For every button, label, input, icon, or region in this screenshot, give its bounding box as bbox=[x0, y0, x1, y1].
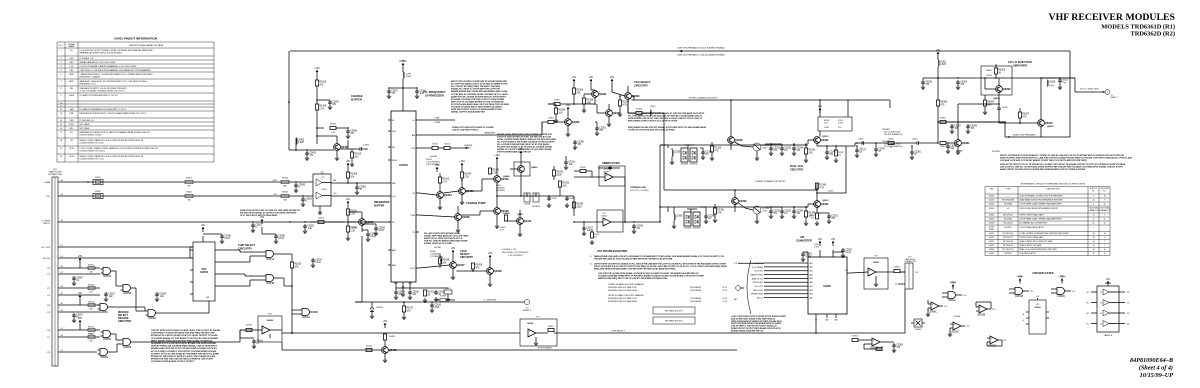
svg-text:TABLE B: TABLE B bbox=[1104, 334, 1113, 337]
svg-text:.1uF: .1uF bbox=[159, 296, 164, 298]
wire 41-CS2 bbox=[64, 257, 193, 259]
svg-text:U2606B: U2606B bbox=[123, 347, 132, 349]
svg-text:XREF: XREF bbox=[392, 160, 398, 162]
svg-text:U2600: U2600 bbox=[527, 323, 534, 325]
connector pin 46 (P3) bbox=[47, 293, 64, 297]
svg-text:R2424: R2424 bbox=[389, 336, 396, 338]
svg-text:LOWER 1/2 BAND CIRCUITRY ENABL: LOWER 1/2 BAND CIRCUITRY ENABLED: bbox=[608, 283, 645, 286]
svg-text:+5V: +5V bbox=[78, 255, 83, 258]
steering line distribution bbox=[659, 145, 668, 223]
svg-text:R2426: R2426 bbox=[366, 345, 373, 347]
svg-text:LM2904: LM2904 bbox=[1005, 253, 1012, 255]
wire synth adapt bbox=[282, 342, 737, 350]
svg-text:2.2K: 2.2K bbox=[350, 230, 355, 232]
svg-text:2.2K: 2.2K bbox=[492, 172, 497, 174]
svg-text:U2603B: U2603B bbox=[977, 315, 986, 317]
capacitor C2416 bbox=[430, 301, 442, 312]
svg-text:VOLTAGE SYNTH BOARD OUTPUT OUT: VOLTAGE SYNTH BOARD OUTPUT OUTPUT bbox=[151, 361, 195, 363]
svg-text:MC74HC00: MC74HC00 bbox=[1003, 245, 1013, 247]
svg-text:C2345: C2345 bbox=[858, 139, 863, 141]
svg-text:U/D LOCK: U/D LOCK bbox=[755, 286, 764, 288]
svg-text:FEEDBACK RF INPUT. 101.40–170.: FEEDBACK RF INPUT. 101.40–170.45MHZ (TRD… bbox=[80, 87, 127, 90]
connector pin 47 (P8) bbox=[47, 350, 64, 354]
transistor Q2360 bandshift inverter bbox=[556, 104, 580, 137]
svg-text:VDD: VDD bbox=[392, 131, 397, 133]
svg-text:C6306: C6306 bbox=[986, 75, 992, 77]
varactor CR2391 bbox=[683, 212, 692, 230]
svg-text:LOCK: LOCK bbox=[410, 268, 416, 270]
svg-text:+5V: +5V bbox=[78, 292, 83, 295]
svg-text:C6310: C6310 bbox=[1002, 107, 1008, 109]
svg-text:BANDSHIFT. HIGH SELECTS LOW FR: BANDSHIFT. HIGH SELECTS LOW FREQUENCY VC… bbox=[80, 80, 148, 83]
svg-text:171.45–195.45MHZ (TRD6362). RI: 171.45–195.45MHZ (TRD6362). RIDING ON 1.… bbox=[80, 91, 126, 93]
svg-text:R2667: R2667 bbox=[88, 265, 95, 267]
svg-text:REFERENCE DIVIDER INPUT. 2.1 M: REFERENCE DIVIDER INPUT. 2.1 MHZ SQUARE … bbox=[80, 112, 148, 115]
svg-text:LOCKED = +5V: LOCKED = +5V bbox=[502, 249, 517, 251]
resistor R2366 bbox=[548, 104, 566, 123]
svg-text:0.1uF: 0.1uF bbox=[224, 238, 230, 240]
svg-text:LOAD: LOAD bbox=[434, 117, 440, 120]
svg-text:14: 14 bbox=[1092, 245, 1094, 247]
svg-text:U2600: U2600 bbox=[873, 262, 880, 264]
pull-up supply +5V bbox=[78, 255, 83, 330]
svg-text:U2603: U2603 bbox=[989, 245, 995, 247]
resistor R6303 bbox=[994, 64, 1005, 79]
resistor R2902 bbox=[894, 266, 905, 272]
svg-text:16: 16 bbox=[1103, 196, 1105, 198]
transistor Q2412 bbox=[382, 320, 398, 363]
svg-text:ETAL: ETAL bbox=[989, 228, 994, 231]
svg-text:CUSTOM PHASE LOCKED LOOP SYNTH: CUSTOM PHASE LOCKED LOOP SYNTHESIZER bbox=[1019, 195, 1063, 198]
svg-text:Q2410: Q2410 bbox=[531, 166, 538, 169]
svg-text:47pF: 47pF bbox=[434, 307, 440, 309]
supply +10V Q2409 bbox=[488, 154, 500, 175]
svg-text:INJECTION FEEDBACK 101.40-170: INJECTION FEEDBACK 101.40-170.45MHZ (TRD… bbox=[677, 47, 725, 50]
gate U2601C bbox=[292, 258, 323, 319]
svg-text:R6364: R6364 bbox=[940, 117, 946, 119]
svg-text:+25B: +25B bbox=[762, 211, 767, 213]
charge buffer label bbox=[351, 94, 363, 101]
svg-text:U2600: U2600 bbox=[989, 208, 995, 210]
svg-text:R2333: R2333 bbox=[808, 150, 815, 152]
transistor Q2411 bbox=[500, 210, 532, 237]
svg-text:+5V VOLTAGE REGULATOR: +5V VOLTAGE REGULATOR bbox=[1019, 226, 1044, 229]
svg-text:DDW: DDW bbox=[69, 156, 74, 158]
supply +5V for U2604 bbox=[201, 224, 206, 232]
svg-text:CHIP SELECT: CHIP SELECT bbox=[238, 243, 256, 247]
capacitor C2333 bbox=[770, 143, 791, 155]
U2401 pinout information table bbox=[57, 37, 214, 163]
svg-text:DWN: DWN bbox=[410, 215, 415, 217]
connector pin 50 (P5) bbox=[47, 310, 64, 314]
svg-text:FREQUENCY CHANGE.: FREQUENCY CHANGE. bbox=[80, 76, 101, 79]
injection feedback drop wire bbox=[288, 51, 302, 150]
resistor R2602 series bbox=[185, 192, 193, 202]
resistor R6363 supply column bbox=[936, 78, 947, 123]
wire chip select rise bbox=[815, 289, 905, 334]
svg-text:MC7805: MC7805 bbox=[1004, 227, 1011, 229]
resistor R2361 bbox=[542, 117, 556, 131]
unused gate U2601C bbox=[942, 281, 967, 302]
svg-text:11: 11 bbox=[1104, 204, 1106, 206]
svg-text:Q2331: Q2331 bbox=[822, 136, 829, 138]
svg-text:+2.5V: +2.5V bbox=[722, 298, 728, 300]
resistor R2417 bbox=[402, 301, 414, 319]
svg-text:(+2.5 TO +7.5 VDC): (+2.5 TO +7.5 VDC) bbox=[630, 190, 649, 192]
transistor Q2407 bbox=[419, 247, 465, 280]
svg-text:U2406: U2406 bbox=[601, 216, 607, 218]
reference oscillator parts bbox=[396, 288, 452, 303]
bias box Q6302 bbox=[981, 66, 1012, 95]
svg-text:+10V: +10V bbox=[314, 67, 320, 70]
svg-text:470: 470 bbox=[838, 127, 841, 129]
svg-text:Q6303: Q6303 bbox=[1045, 121, 1053, 125]
svg-text:RSSI LEVEL: RSSI LEVEL bbox=[753, 282, 763, 284]
svg-text:R2369: R2369 bbox=[586, 100, 593, 102]
svg-text:NAME: NAME bbox=[69, 45, 75, 48]
svg-text:STEERING LINE VOLTAGE LOW: STEERING LINE VOLTAGE LOW bbox=[608, 286, 637, 289]
svg-text:CIRCUITRY: CIRCUITRY bbox=[790, 168, 804, 171]
svg-text:R2414: R2414 bbox=[444, 143, 450, 145]
svg-text:Q2361: Q2361 bbox=[599, 92, 607, 96]
svg-text:NOTES:: NOTES: bbox=[992, 151, 1001, 153]
svg-text:+5V: +5V bbox=[401, 60, 406, 63]
svg-text:U2406C: U2406C bbox=[929, 312, 938, 314]
svg-text:—: — bbox=[1007, 196, 1009, 198]
resistor R2604 bbox=[310, 217, 345, 223]
transistor Q2409 bbox=[465, 166, 510, 197]
svg-text:(Sheet 4 of 4): (Sheet 4 of 4) bbox=[1139, 365, 1173, 372]
transistor Q6361 bbox=[946, 140, 970, 155]
lock detect label bbox=[460, 250, 473, 259]
svg-text:Fo: Fo bbox=[70, 50, 72, 52]
charge pump summing wire bbox=[497, 186, 540, 197]
svg-text:R2409: R2409 bbox=[330, 123, 337, 125]
wire injection feedback bbox=[290, 47, 1070, 57]
wire synth adapt feed bbox=[240, 330, 264, 349]
svg-text:DC BIAS FOR PRESCALER INPUT. 1: DC BIAS FOR PRESCALER INPUT. 1.4V DC. bbox=[80, 94, 119, 97]
svg-text:VCO TROUBLESHOOTING: VCO TROUBLESHOOTING bbox=[597, 250, 627, 253]
unused op-amp U2406C bbox=[926, 300, 948, 317]
svg-text:OCTAL 3-STATE NONINVERTING BUF: OCTAL 3-STATE NONINVERTING BUFFER/LINE D… bbox=[1019, 232, 1069, 235]
svg-text:—: — bbox=[1104, 227, 1106, 229]
capacitor C2630 bbox=[260, 216, 286, 244]
svg-text:IC POWER. +5V.: IC POWER. +5V. bbox=[80, 58, 95, 60]
capacitor C2601 bbox=[251, 223, 263, 233]
svg-text:R2413: R2413 bbox=[432, 143, 438, 145]
svg-text:STEERING LINE VOLTAGE HIGH: STEERING LINE VOLTAGE HIGH bbox=[608, 289, 637, 292]
svg-text:+5V: +5V bbox=[346, 160, 351, 163]
feedback return edge bbox=[1041, 51, 1070, 137]
svg-text:R2340: R2340 bbox=[819, 185, 826, 187]
svg-text:4: 4 bbox=[1093, 219, 1094, 221]
svg-text:R2429: R2429 bbox=[475, 265, 482, 267]
connector pin 40 (P0) bbox=[47, 266, 64, 270]
charge pump note bbox=[497, 134, 557, 154]
svg-text:MOD: MOD bbox=[273, 180, 278, 182]
svg-text:U2906: U2906 bbox=[322, 189, 327, 191]
svg-text:6: 6 bbox=[1113, 324, 1114, 326]
resistor R2390 feed bbox=[627, 104, 629, 113]
svg-text:SEE TABLE A NOTE 1: SEE TABLE A NOTE 1 bbox=[665, 310, 683, 313]
resistor R2369 bbox=[582, 94, 594, 113]
svg-text:OUT: OUT bbox=[845, 270, 848, 272]
capacitor C6304 bbox=[956, 80, 968, 90]
VCO troubleshooting heading bbox=[597, 250, 627, 253]
dual VCO circuitry label bbox=[790, 165, 804, 171]
svg-text:THE AND PIN LEVEL AT IS DC PUL: THE AND PIN LEVEL AT IS DC PULSES AT RAT… bbox=[594, 257, 673, 260]
svg-text:+7.5V: +7.5V bbox=[722, 290, 728, 292]
supply +5V amplifier bbox=[936, 49, 941, 60]
svg-text:8: 8 bbox=[1113, 303, 1114, 305]
svg-text:CHIP SELECT. LOW WHEN PROGRAMM: CHIP SELECT. LOW WHEN PROGRAMMING. HIGH … bbox=[80, 69, 152, 72]
unused op-amp U2603B bbox=[976, 302, 996, 317]
amplifier top rail bbox=[938, 77, 1075, 79]
svg-text:MC145041: MC145041 bbox=[1003, 223, 1012, 225]
svg-text:P/O: P/O bbox=[536, 317, 540, 319]
svg-text:7: 7 bbox=[1113, 313, 1114, 315]
svg-text:R2432: R2432 bbox=[556, 172, 563, 174]
svg-text:(171.45MHZ): (171.45MHZ) bbox=[690, 298, 702, 300]
svg-text:SHEET 1: SHEET 1 bbox=[1111, 97, 1118, 99]
bandshift note bbox=[628, 113, 705, 123]
svg-text:R2604: R2604 bbox=[318, 217, 324, 219]
capacitor C2336 bbox=[700, 148, 713, 160]
svg-text:A/N2: A/N2 bbox=[392, 264, 396, 267]
svg-text:4.7K: 4.7K bbox=[819, 187, 824, 189]
svg-text:R2368: R2368 bbox=[622, 102, 629, 104]
wire CLK long bbox=[331, 195, 388, 197]
supply +5V charge buffer bbox=[314, 67, 320, 75]
resistor R2635 bbox=[290, 254, 301, 334]
svg-text:FREQUENCY VCO.: FREQUENCY VCO. bbox=[80, 84, 97, 86]
svg-text:MC74HC11: MC74HC11 bbox=[1003, 237, 1013, 239]
svg-text:REFERENCE DIVIDER OUTPUT. SAWT: REFERENCE DIVIDER OUTPUT. SAWTOOTH WAVEF… bbox=[80, 131, 151, 134]
svg-text:LOW DC LINE INPUT THE DC: LOW DC LINE INPUT THE DC bbox=[452, 129, 479, 131]
svg-text:Q6302: Q6302 bbox=[1003, 87, 1011, 91]
svg-text:4: 4 bbox=[1104, 253, 1105, 255]
note charge pump pulses bbox=[424, 233, 469, 245]
svg-text:R2966: R2966 bbox=[350, 174, 357, 176]
svg-text:R2613: R2613 bbox=[88, 334, 95, 336]
svg-text:UNUSED GATES: UNUSED GATES bbox=[1032, 271, 1053, 275]
capacitor C2337 bbox=[855, 145, 867, 157]
svg-text:R2318: R2318 bbox=[636, 108, 642, 110]
svg-text:C2346: C2346 bbox=[828, 191, 833, 193]
svg-text:U2403D: U2403D bbox=[915, 329, 923, 331]
svg-text:+2.5V: +2.5V bbox=[722, 287, 728, 289]
svg-text:U2602: U2602 bbox=[989, 241, 995, 243]
svg-text:100K: 100K bbox=[556, 174, 562, 176]
capacitor C2396 bbox=[700, 207, 716, 224]
transistor Q2401 prescaler buffer bbox=[316, 135, 349, 160]
svg-text:+5V: +5V bbox=[936, 49, 941, 52]
svg-text:7: 7 bbox=[1104, 215, 1105, 217]
svg-text:CHARGE: CHARGE bbox=[351, 94, 363, 98]
svg-text:XREF: XREF bbox=[394, 283, 398, 285]
svg-text:10K: 10K bbox=[442, 262, 447, 264]
svg-text:10K: 10K bbox=[808, 152, 813, 154]
svg-text:47K: 47K bbox=[475, 267, 480, 269]
svg-text:P/O: P/O bbox=[1036, 304, 1040, 306]
locked level note bbox=[502, 249, 529, 257]
svg-text:U2600: U2600 bbox=[267, 320, 274, 322]
svg-text:BANDSHIFT: BANDSHIFT bbox=[485, 132, 497, 135]
svg-text:R6361: R6361 bbox=[940, 146, 946, 148]
svg-text:U2902: U2902 bbox=[989, 233, 995, 235]
svg-text:DIGITAL: DIGITAL bbox=[434, 246, 441, 249]
capacitor C2417 bbox=[387, 87, 417, 98]
transistor Q2408 bbox=[461, 196, 510, 229]
buffer emitter parts lower bbox=[810, 213, 839, 226]
svg-text:+5V: +5V bbox=[566, 104, 571, 107]
svg-text:WHEN BY AND FREQ FED TO ON ON: WHEN BY AND FREQ FED TO ON ON LOW AT LOW… bbox=[598, 277, 668, 280]
steering limits boxes bbox=[653, 307, 695, 324]
svg-text:CIRCUITRY: CIRCUITRY bbox=[460, 256, 473, 259]
svg-text:CHANGE FREQ: CHANGE FREQ bbox=[750, 273, 764, 276]
svg-text:TRD6362D (R2): TRD6362D (R2) bbox=[1130, 31, 1175, 38]
capacitor C2605 bbox=[303, 221, 315, 233]
svg-text:Q2411: Q2411 bbox=[517, 213, 524, 216]
svg-text:23: 23 bbox=[895, 284, 897, 286]
svg-text:A/N1: A/N1 bbox=[392, 249, 396, 252]
charge pump label bbox=[466, 201, 486, 205]
svg-text:Pin #: Pin # bbox=[59, 45, 65, 47]
svg-text:C2341: C2341 bbox=[824, 127, 829, 129]
svg-text:2.2K: 2.2K bbox=[350, 213, 355, 215]
capacitor C2393 bbox=[770, 206, 791, 218]
resistor R2408 network bbox=[436, 296, 455, 302]
svg-text:+5V: +5V bbox=[435, 164, 440, 167]
svg-text:6.25KHZ RIDING ON .5V DC.: 6.25KHZ RIDING ON .5V DC. bbox=[80, 143, 106, 145]
wire upper band select bbox=[631, 97, 890, 118]
injection feedback label bbox=[1005, 122, 1041, 138]
varactor CR2392 bbox=[687, 209, 701, 230]
svg-text:Q2403: Q2403 bbox=[494, 269, 502, 273]
resistor R2611 bbox=[346, 206, 357, 222]
svg-text:41-CS2: 41-CS2 bbox=[43, 258, 51, 260]
svg-text:+5V: +5V bbox=[451, 247, 456, 250]
svg-text:R6363: R6363 bbox=[940, 102, 947, 104]
svg-text:R2408: R2408 bbox=[440, 296, 447, 298]
inductor L2403 bbox=[402, 72, 412, 89]
svg-text:R2330: R2330 bbox=[714, 148, 721, 150]
wire chip select net bbox=[284, 278, 293, 287]
capacitor C2392 bbox=[765, 207, 781, 219]
svg-text:10 (ANALOG): 10 (ANALOG) bbox=[1099, 209, 1111, 212]
svg-text:QUAD 2-INPUT EXCLUSIVE OR GATE: QUAD 2-INPUT EXCLUSIVE OR GATE bbox=[1019, 240, 1053, 243]
loop filter input parts bbox=[540, 181, 575, 208]
svg-text:10/15/99–UP: 10/15/99–UP bbox=[1140, 372, 1174, 379]
svg-text:1.4V (TRD6362): 1.4V (TRD6362) bbox=[508, 255, 523, 257]
svg-text:U2601: U2601 bbox=[989, 237, 995, 239]
capacitor C2910 bbox=[301, 195, 313, 206]
svg-text:DESCRIPTION: DESCRIPTION bbox=[1047, 189, 1061, 191]
svg-text:Q2411: Q2411 bbox=[524, 219, 532, 223]
svg-text:TYPE: TYPE bbox=[1006, 189, 1012, 191]
resistor R2396 bbox=[804, 206, 816, 225]
svg-text:14: 14 bbox=[1092, 200, 1094, 202]
svg-text:+5V: +5V bbox=[346, 198, 351, 201]
capacitor C2347 shunt bbox=[874, 142, 886, 156]
svg-text:R2640: R2640 bbox=[246, 325, 253, 327]
resistor R2409 pullup bbox=[459, 160, 472, 181]
svg-text:47K: 47K bbox=[714, 150, 719, 152]
svg-text:Pin: Pin bbox=[1092, 191, 1095, 193]
svg-text:U2900: U2900 bbox=[989, 223, 995, 225]
resistor R2391 bbox=[713, 204, 725, 223]
VCO select label bbox=[634, 80, 651, 87]
svg-text:330: 330 bbox=[187, 185, 190, 187]
svg-text:CLOCK FOR SERIAL DATA PROGRAMM: CLOCK FOR SERIAL DATA PROGRAMMING. 0–5V … bbox=[80, 65, 138, 68]
capacitor C2909 bbox=[294, 181, 306, 192]
svg-text:+5V: +5V bbox=[572, 76, 577, 79]
svg-text:CR2332: CR2332 bbox=[689, 164, 698, 166]
svg-text:+7.5V: +7.5V bbox=[722, 301, 728, 303]
svg-text:7: 7 bbox=[1104, 241, 1105, 243]
inductor L6301 bbox=[937, 60, 947, 79]
svg-text:BAND CIRCUIT PULSES SYNTH LOCK: BAND CIRCUIT PULSES SYNTH LOCKED REF WHE… bbox=[1000, 169, 1086, 171]
resistor R2601 series bbox=[185, 178, 193, 188]
svg-text:1.8uH: 1.8uH bbox=[1049, 85, 1055, 87]
connector pin 52 (+B +CS1) bbox=[41, 245, 64, 249]
svg-text:0.1uF: 0.1uF bbox=[845, 252, 851, 254]
svg-text:OUT: OUT bbox=[915, 272, 919, 274]
varactor CR2331 bbox=[680, 148, 689, 166]
svg-text:U2401: U2401 bbox=[399, 163, 408, 167]
resistor R2418 bbox=[315, 100, 326, 144]
svg-text:R2418: R2418 bbox=[319, 106, 326, 108]
gate U2604C bbox=[218, 250, 292, 262]
svg-text:R2965: R2965 bbox=[282, 192, 289, 194]
IC U2900 A/D converter bbox=[750, 250, 851, 322]
svg-text:CARD EDGE: CARD EDGE bbox=[48, 171, 62, 174]
svg-text:R2421: R2421 bbox=[427, 292, 434, 294]
svg-text:R6307: R6307 bbox=[1022, 114, 1029, 116]
svg-text:7: 7 bbox=[1104, 237, 1105, 239]
svg-text:DUAL 1-OF-4 DECODER/DEMULTIPLE: DUAL 1-OF-4 DECODER/DEMULTIPLEXER bbox=[1019, 248, 1057, 251]
svg-text:Q2331: Q2331 bbox=[821, 138, 829, 142]
svg-text:STEERING LINE: STEERING LINE bbox=[630, 187, 647, 189]
svg-text:NL LEVEL: NL LEVEL bbox=[755, 271, 763, 273]
svg-text:7: 7 bbox=[1104, 245, 1105, 247]
svg-text:DATA: DATA bbox=[44, 181, 50, 184]
wire feedback column to base bbox=[937, 122, 939, 143]
svg-text:U2401 PINOUT INFORMATION: U2401 PINOUT INFORMATION bbox=[114, 37, 157, 41]
svg-text:R2410: R2410 bbox=[354, 154, 361, 156]
svg-text:20: 20 bbox=[1092, 223, 1094, 225]
op-amp U2406B bbox=[598, 166, 625, 190]
svg-text:U2900: U2900 bbox=[823, 284, 831, 288]
svg-text:SEE TABLE A NOTE 2: SEE TABLE A NOTE 2 bbox=[665, 320, 683, 323]
svg-text:16: 16 bbox=[1092, 249, 1094, 251]
1st LO injection amplifier label bbox=[1008, 60, 1032, 67]
svg-text:11: 11 bbox=[1100, 292, 1102, 294]
svg-text:MODELS TRD6361D (R1): MODELS TRD6361D (R1) bbox=[1101, 24, 1175, 31]
svg-text:2.7K: 2.7K bbox=[331, 132, 336, 134]
svg-text:U2401: U2401 bbox=[989, 196, 995, 198]
gate U2605D bbox=[101, 331, 121, 342]
svg-text:ANALOG +5V: ANALOG +5V bbox=[752, 277, 764, 280]
upper band tank wire bbox=[660, 143, 731, 148]
svg-text:TRIPLE 3-INPUT AND GATE: TRIPLE 3-INPUT AND GATE bbox=[1019, 214, 1044, 217]
connector pin 36 (DATA) bbox=[44, 180, 64, 184]
svg-text:MC74HC11: MC74HC11 bbox=[1003, 215, 1013, 217]
transistor Q2406 bbox=[419, 206, 470, 233]
PLL frequency synthesizer label bbox=[423, 90, 446, 97]
svg-text:L2330: L2330 bbox=[674, 152, 681, 154]
svg-text:INPUT: INPUT bbox=[43, 223, 50, 225]
